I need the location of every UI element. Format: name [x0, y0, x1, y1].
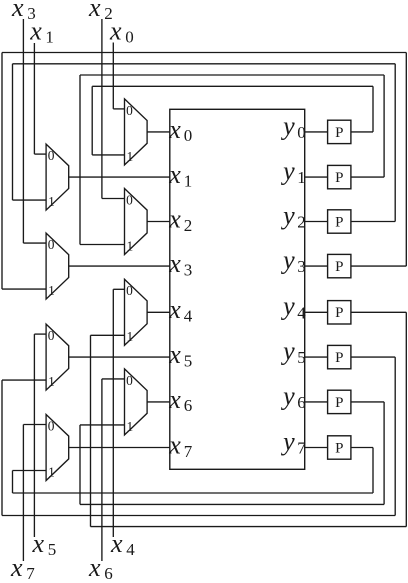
svg-text:y: y: [280, 111, 295, 140]
svg-text:P: P: [335, 350, 343, 366]
svg-text:6: 6: [104, 564, 113, 583]
svg-text:x: x: [168, 295, 181, 324]
svg-text:7: 7: [184, 442, 193, 461]
svg-text:4: 4: [126, 540, 135, 559]
svg-text:0: 0: [126, 373, 133, 388]
svg-text:7: 7: [26, 564, 35, 583]
svg-text:x: x: [10, 553, 23, 582]
svg-text:0: 0: [48, 148, 55, 163]
svg-text:1: 1: [127, 149, 134, 164]
svg-text:y: y: [280, 337, 295, 366]
svg-text:3: 3: [184, 260, 193, 279]
svg-text:2: 2: [297, 213, 306, 232]
svg-text:P: P: [335, 214, 343, 230]
svg-text:x: x: [88, 0, 101, 22]
svg-text:x: x: [168, 115, 181, 144]
svg-text:0: 0: [126, 192, 133, 207]
svg-text:0: 0: [126, 103, 133, 118]
svg-text:x: x: [32, 529, 45, 558]
svg-text:x: x: [168, 160, 181, 189]
svg-text:x: x: [88, 553, 101, 582]
svg-text:0: 0: [48, 418, 55, 433]
svg-text:1: 1: [127, 419, 134, 434]
svg-text:1: 1: [297, 168, 306, 187]
svg-text:y: y: [280, 157, 295, 186]
svg-text:P: P: [335, 395, 343, 411]
svg-text:y: y: [280, 381, 295, 410]
svg-text:1: 1: [127, 329, 134, 344]
svg-text:4: 4: [297, 303, 306, 322]
svg-text:y: y: [280, 292, 295, 321]
svg-text:0: 0: [297, 123, 306, 142]
svg-text:6: 6: [184, 396, 193, 415]
svg-text:0: 0: [48, 237, 55, 252]
svg-text:2: 2: [184, 216, 193, 235]
svg-text:1: 1: [45, 28, 54, 47]
svg-text:1: 1: [48, 194, 55, 209]
svg-text:0: 0: [184, 126, 193, 145]
svg-text:x: x: [11, 0, 24, 22]
svg-text:0: 0: [48, 328, 55, 343]
svg-text:4: 4: [184, 307, 193, 326]
svg-text:5: 5: [297, 348, 306, 367]
svg-text:x: x: [168, 430, 181, 459]
svg-text:0: 0: [126, 283, 133, 298]
svg-text:x: x: [110, 529, 123, 558]
svg-text:P: P: [335, 305, 343, 321]
svg-text:P: P: [335, 440, 343, 456]
svg-text:x: x: [168, 204, 181, 233]
svg-text:y: y: [280, 427, 295, 456]
svg-text:1: 1: [48, 374, 55, 389]
svg-text:y: y: [280, 201, 295, 230]
svg-text:1: 1: [48, 464, 55, 479]
svg-text:x: x: [29, 17, 42, 46]
svg-text:x: x: [168, 340, 181, 369]
svg-text:6: 6: [297, 393, 306, 412]
svg-text:1: 1: [48, 283, 55, 298]
svg-text:5: 5: [48, 540, 57, 559]
svg-text:P: P: [335, 259, 343, 275]
svg-text:x: x: [168, 385, 181, 414]
svg-text:7: 7: [297, 439, 306, 458]
svg-text:P: P: [335, 125, 343, 141]
svg-text:3: 3: [297, 257, 306, 276]
svg-text:1: 1: [127, 238, 134, 253]
svg-text:P: P: [335, 170, 343, 186]
svg-text:x: x: [109, 17, 122, 46]
svg-text:5: 5: [184, 351, 193, 370]
svg-text:x: x: [168, 249, 181, 278]
svg-text:1: 1: [184, 171, 193, 190]
svg-text:0: 0: [125, 28, 134, 47]
svg-text:y: y: [280, 246, 295, 275]
